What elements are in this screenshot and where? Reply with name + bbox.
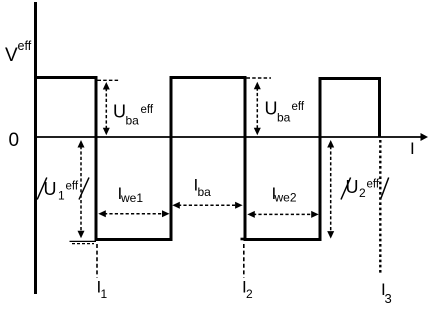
svg-text:U: U [265,99,278,119]
svg-text:U: U [346,177,359,197]
svg-text:U: U [113,102,126,122]
svg-text:eff: eff [141,104,154,116]
svg-text:2: 2 [359,186,366,200]
svg-text:we2: we2 [274,191,297,205]
svg-text:eff: eff [367,179,380,191]
svg-text:2: 2 [246,287,253,301]
svg-text:1: 1 [58,189,65,203]
svg-text:U: U [44,179,57,199]
svg-text:ba: ba [126,114,140,128]
svg-text:I: I [410,139,415,158]
svg-text:V: V [5,45,18,66]
svg-text:we1: we1 [120,191,143,205]
svg-text:eff: eff [18,39,32,53]
svg-text:ba: ba [198,185,212,199]
svg-text:eff: eff [292,101,305,113]
svg-text:ba: ba [277,111,291,125]
svg-text:0: 0 [9,130,20,151]
svg-text:eff: eff [66,181,79,193]
svg-text:3: 3 [385,291,392,306]
svg-text:1: 1 [101,287,108,301]
